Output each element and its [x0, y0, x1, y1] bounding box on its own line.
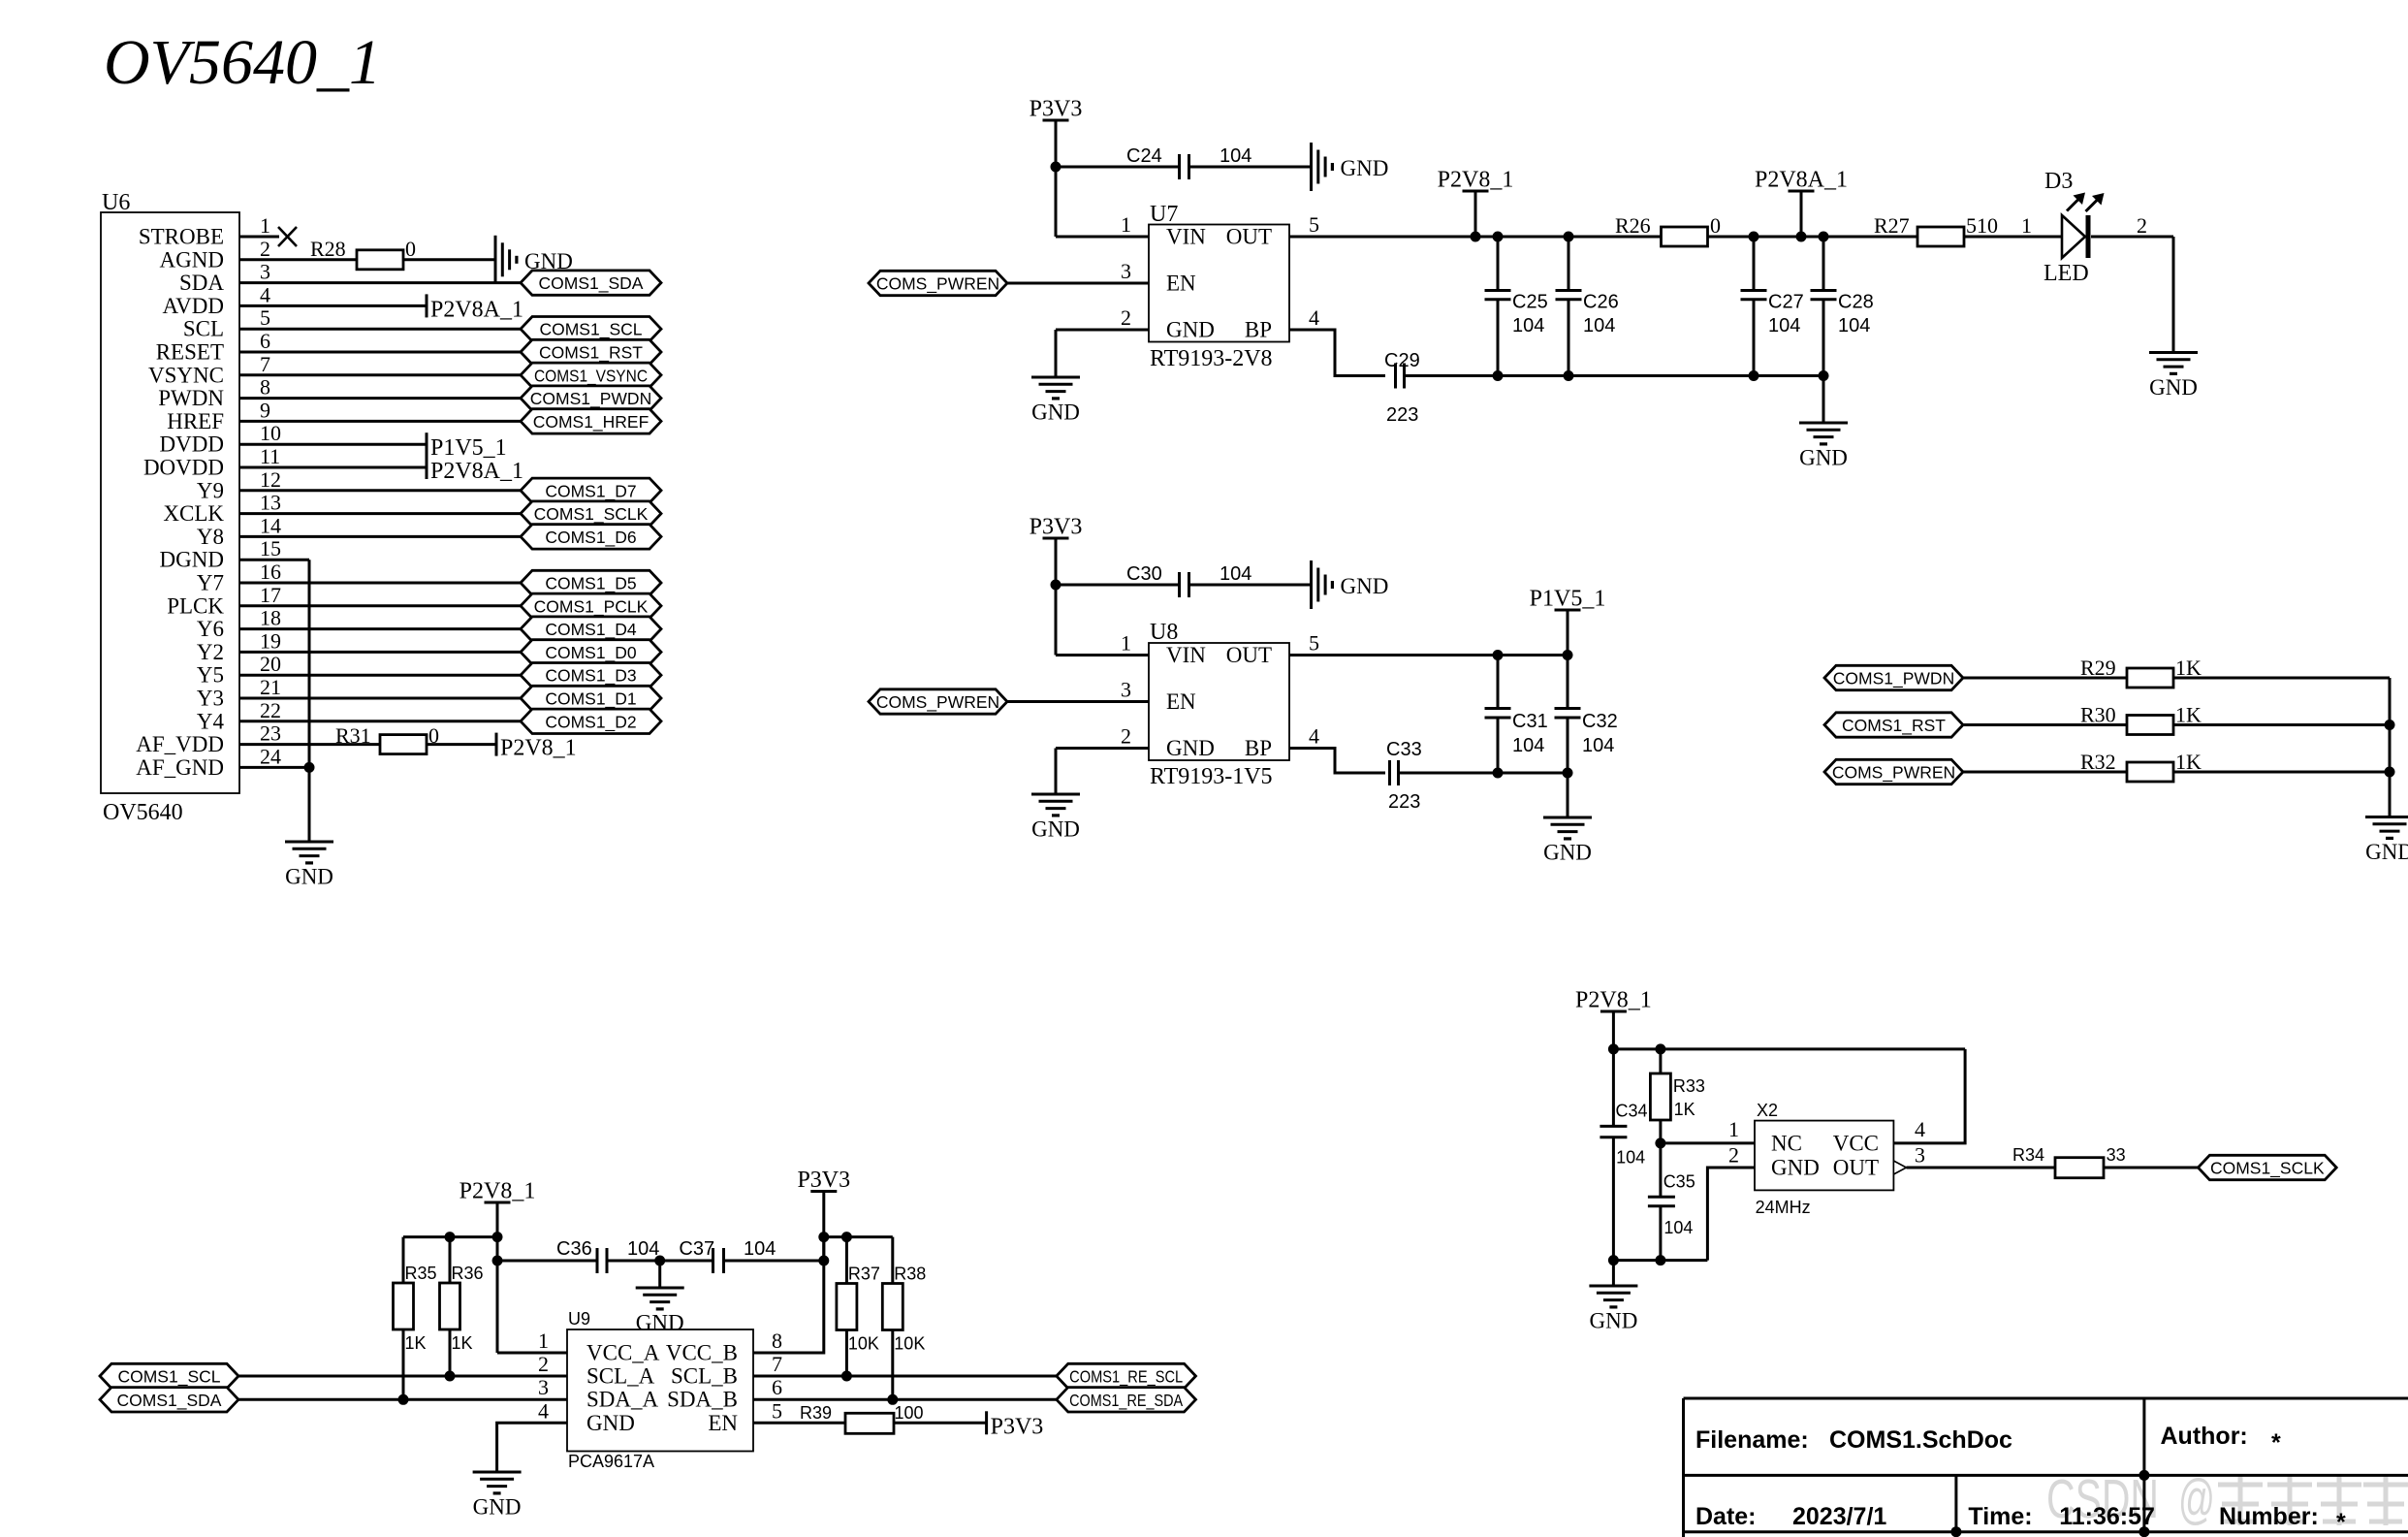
svg-text:2: 2 [538, 1352, 549, 1376]
svg-text:7: 7 [772, 1352, 782, 1376]
svg-text:C26: C26 [1583, 292, 1619, 313]
junction C25 on OUT rail [1493, 232, 1504, 242]
junction R36 top [445, 1232, 456, 1242]
svg-text:COMS1_D3: COMS1_D3 [545, 666, 636, 687]
resistor R31 0ohm [335, 723, 439, 754]
svg-text:GND: GND [1341, 574, 1389, 598]
svg-text:COMS1.SchDoc: COMS1.SchDoc [1829, 1426, 2012, 1454]
wire rail to C28 [1822, 237, 1825, 291]
junction P2V8_1 stem on OUT rail [1471, 232, 1481, 242]
wire R39 to P3V3 [894, 1422, 987, 1425]
svg-text:R39: R39 [800, 1403, 832, 1423]
port COMS1_D0 [521, 640, 661, 664]
port COMS1_SDA [521, 271, 661, 295]
svg-text:STROBE: STROBE [139, 225, 224, 249]
svg-text:4: 4 [1915, 1117, 1925, 1141]
LED pin numbers [2021, 213, 2147, 238]
svg-text:R31: R31 [335, 723, 371, 748]
junction R33 top [1655, 1043, 1665, 1054]
power P2V8_1 above U9 [459, 1179, 536, 1204]
power P2V8_1 above X2 [1575, 988, 1652, 1013]
svg-text:Y5: Y5 [197, 663, 224, 688]
power P2V8A_1 at U6 pin 4 [427, 294, 523, 322]
ground at R28 [495, 236, 573, 284]
VCC feed wire [1893, 1049, 1965, 1143]
junction C26 on OUT rail [1564, 232, 1574, 242]
svg-text:2: 2 [260, 237, 270, 261]
svg-text:5: 5 [260, 305, 270, 330]
U6 pin 11 DOVDD wire [239, 466, 427, 469]
svg-text:U8: U8 [1150, 620, 1178, 645]
svg-text:1: 1 [1728, 1117, 1739, 1141]
svg-text:R28: R28 [310, 237, 346, 261]
svg-text:2023/7/1: 2023/7/1 [1792, 1503, 1886, 1530]
svg-text:510: 510 [1966, 213, 1998, 238]
svg-text:C25: C25 [1512, 292, 1548, 313]
svg-text:GND: GND [1771, 1156, 1820, 1180]
svg-text:Y9: Y9 [197, 478, 224, 502]
U8 pin 1 wire [1056, 654, 1149, 656]
ground below pulldowns [2365, 817, 2408, 865]
title block junction 3 [2139, 1526, 2149, 1537]
capacitor C29 223 [1384, 350, 1420, 426]
ground at C24 [1312, 143, 1389, 191]
pulldown bus to ground [2389, 772, 2392, 817]
wire rail to C31 [1497, 656, 1500, 709]
P2V8_1 stem to U9 pin1 row [496, 1202, 499, 1353]
svg-text:14: 14 [260, 513, 281, 537]
svg-text:R36: R36 [452, 1264, 484, 1283]
power P3V3 above U7 [1030, 97, 1083, 122]
X2 pin numbers [1728, 1117, 1925, 1168]
svg-text:AVDD: AVDD [163, 294, 224, 318]
junction C31 on U8 rail [1493, 650, 1504, 660]
svg-text:SCL_A: SCL_A [586, 1364, 655, 1389]
svg-text:104: 104 [627, 1238, 659, 1260]
svg-text:GND: GND [473, 1495, 522, 1520]
svg-text:21: 21 [260, 675, 281, 699]
svg-text:1K: 1K [2175, 656, 2202, 680]
svg-text:5: 5 [772, 1398, 782, 1423]
svg-text:3: 3 [260, 260, 270, 284]
pulldown vertical bus [2389, 678, 2392, 772]
ground below X2 [1589, 1286, 1637, 1333]
U9 pin numbers [538, 1329, 782, 1423]
svg-text:33: 33 [2107, 1145, 2126, 1165]
U6 pin numbers 1-24 [260, 213, 281, 768]
U9 pin 5 EN wire [753, 1422, 845, 1425]
svg-text:COMS1_SCLK: COMS1_SCLK [2210, 1159, 2325, 1179]
svg-text:OV5640: OV5640 [103, 800, 183, 825]
X2 pin 2 GND wire [1707, 1168, 1755, 1261]
P2V8_1 stem [1474, 191, 1477, 237]
ground below U7 [1031, 377, 1080, 425]
svg-text:R34: R34 [2012, 1145, 2044, 1165]
U6 pin 18 wire [239, 627, 521, 630]
svg-text:XCLK: XCLK [163, 501, 224, 526]
U6 pin 17 wire [239, 604, 521, 607]
U8 bottom rail [1399, 772, 1568, 775]
no-connect X on U6 pin 1 [278, 227, 297, 246]
svg-text:104: 104 [1220, 145, 1252, 167]
power P1V5_1 [1530, 587, 1606, 612]
svg-text:GND: GND [1799, 446, 1848, 470]
resistor R30 1K [2080, 703, 2202, 735]
svg-text:COMS1_VSYNC: COMS1_VSYNC [534, 366, 648, 386]
svg-text:12: 12 [260, 467, 281, 492]
DGND vertical wire [308, 560, 311, 767]
junction R35 on SDA line [398, 1394, 409, 1405]
X2 pin 3 OUT wire [1907, 1167, 2056, 1169]
title block junction 1 [2139, 1470, 2149, 1481]
resistor R36 1K [440, 1264, 484, 1353]
svg-text:C31: C31 [1512, 711, 1548, 732]
svg-text:23: 23 [260, 721, 281, 746]
svg-text:11:36:57: 11:36:57 [2059, 1503, 2155, 1530]
svg-text:Number:: Number: [2219, 1503, 2319, 1530]
svg-text:AF_VDD: AF_VDD [136, 732, 224, 756]
wire rail to C25 [1497, 237, 1500, 291]
svg-text:24: 24 [260, 744, 281, 768]
svg-text:15: 15 [260, 536, 281, 560]
port COMS1_SCL [100, 1363, 238, 1388]
svg-text:C33: C33 [1386, 739, 1422, 760]
junction C28 on OUT rail [1819, 232, 1829, 242]
X2 bottom rail [1613, 1259, 1707, 1262]
junction bottom rail x1545 [1493, 370, 1504, 381]
U9 pin 4 GND wire [497, 1423, 567, 1472]
svg-text:GND: GND [1031, 400, 1080, 425]
U7 bottom rail [1405, 374, 1823, 377]
svg-text:3: 3 [1915, 1143, 1925, 1168]
junction R38 on SDA_B [887, 1394, 898, 1405]
svg-text:C36: C36 [556, 1238, 592, 1260]
svg-text:6: 6 [772, 1375, 782, 1399]
svg-text:Time:: Time: [1968, 1503, 2032, 1530]
svg-text:9: 9 [260, 398, 270, 422]
power P2V8A_1 [1755, 168, 1848, 193]
junction C31 bottom [1493, 768, 1504, 779]
svg-text:2: 2 [1728, 1143, 1739, 1168]
junction P3V3/C24 [1051, 162, 1061, 173]
svg-text:P3V3: P3V3 [797, 1168, 850, 1193]
svg-text:GND: GND [2149, 375, 2198, 400]
capacitor C27 104 [1741, 291, 1804, 337]
svg-text:U9: U9 [568, 1309, 590, 1329]
port COMS1_RE_SCL [1057, 1363, 1196, 1388]
svg-text:COMS1_HREF: COMS1_HREF [533, 412, 650, 432]
svg-text:SDA: SDA [179, 271, 224, 295]
port COMS1_SCLK [521, 501, 661, 526]
capacitor C34 104 [1600, 1102, 1647, 1168]
svg-text:10: 10 [260, 421, 281, 445]
svg-text:DGND: DGND [160, 548, 224, 572]
U6 pin names [136, 225, 224, 780]
svg-text:PLCK: PLCK [167, 593, 224, 618]
port COMS1_D3 [521, 663, 661, 688]
port COMS1_D5 [521, 570, 661, 594]
port COMS1_PWDN to R29 [1824, 665, 1963, 689]
port COMS_PWREN to R32 [1824, 759, 1963, 784]
title block frame [1684, 1398, 2408, 1537]
power P2V8A_1 at U6 pin 11 [427, 456, 523, 484]
svg-text:GND: GND [1543, 841, 1592, 865]
U7 pin 2 stem to ground [1055, 330, 1058, 377]
svg-text:COMS1_D2: COMS1_D2 [545, 712, 636, 732]
svg-text:4: 4 [1309, 305, 1319, 330]
resistor R37 10K [837, 1265, 880, 1354]
wire COMS1_RST to R30 [1963, 723, 2127, 726]
svg-text:P1V5_1: P1V5_1 [1530, 587, 1606, 612]
U8 bottom stem to ground [1567, 773, 1569, 817]
resistor R29 1K [2080, 656, 2202, 688]
svg-text:P2V8_1: P2V8_1 [1438, 168, 1514, 193]
svg-text:OUT: OUT [1226, 225, 1272, 249]
U6 pin 15 DGND wire [239, 559, 309, 561]
svg-text:1: 1 [2021, 213, 2032, 238]
U6 pin 24 AF_GND wire [239, 766, 309, 769]
port COMS1_RE_SDA [1057, 1388, 1196, 1412]
junction C37 on P3V3 stem [818, 1256, 829, 1266]
junction P2V8_1 rail [492, 1232, 503, 1242]
power P3V3 at R39 [987, 1411, 1044, 1439]
svg-text:2: 2 [2137, 213, 2147, 238]
P3V3 stem to U7 pin1 [1055, 120, 1058, 237]
svg-text:Y3: Y3 [197, 687, 224, 711]
U7 pin 4 BP wire [1289, 330, 1385, 376]
wire P3V3 to C30 [1056, 584, 1179, 587]
svg-text:AF_GND: AF_GND [136, 755, 224, 780]
R38 top feed [891, 1237, 894, 1284]
svg-text:1K: 1K [452, 1333, 473, 1353]
svg-text:P2V8_1: P2V8_1 [500, 736, 577, 761]
svg-text:R32: R32 [2080, 750, 2116, 774]
U7 OUT rail segment 1 [1289, 236, 1661, 239]
U7 OUT rail segment 2 [1708, 236, 1917, 239]
resistor R32 1K [2080, 750, 2202, 782]
svg-text:COMS_PWREN: COMS_PWREN [876, 274, 999, 295]
port COMS1_D4 [521, 617, 661, 641]
svg-text:COMS1_D5: COMS1_D5 [545, 574, 636, 594]
svg-text:OV5640_1: OV5640_1 [104, 27, 381, 98]
U8 pin 3 EN wire [1007, 700, 1149, 703]
wire P3V3 to C24 [1056, 166, 1179, 169]
port COMS1_D2 [521, 709, 661, 733]
U6 pin 10 DVDD wire [239, 443, 427, 446]
ground at C30 [1312, 560, 1389, 609]
U6 pin 14 wire [239, 535, 521, 538]
power P3V3 above U8 [1030, 515, 1083, 540]
svg-text:GND: GND [285, 865, 333, 889]
U6 pin 5 wire [239, 328, 521, 331]
port COMS1_D6 [521, 525, 661, 549]
svg-text:C32: C32 [1582, 711, 1618, 732]
svg-text:D3: D3 [2044, 169, 2073, 194]
P2V8A_1 stem [1800, 191, 1803, 237]
svg-text:4: 4 [538, 1398, 549, 1423]
svg-text:223: 223 [1386, 404, 1418, 426]
junction R37 on SCL_B [841, 1371, 852, 1382]
svg-text:DVDD: DVDD [160, 432, 224, 457]
wire rail to C26 [1568, 237, 1570, 291]
X2 top rail [1613, 1047, 1965, 1050]
wire R29 to bus [2173, 677, 2390, 680]
svg-text:COMS_PWREN: COMS_PWREN [1832, 763, 1955, 784]
port COMS1_SCLK [2198, 1155, 2336, 1179]
capacitor C30 104 [1126, 563, 1252, 597]
U6 pin 23 wire to R31 [239, 743, 380, 746]
svg-text:R30: R30 [2080, 703, 2116, 727]
U8 pin 4 BP wire [1289, 749, 1385, 774]
capacitor C33 223 [1386, 739, 1422, 813]
svg-text:COMS1_RST: COMS1_RST [1842, 716, 1946, 736]
U6 pin 13 wire [239, 512, 521, 515]
svg-text:3: 3 [1121, 678, 1131, 702]
svg-text:1K: 1K [2175, 750, 2202, 774]
U6 pin 7 wire [239, 373, 521, 376]
ground between C36 C37 [636, 1288, 684, 1335]
svg-text:100: 100 [895, 1403, 924, 1423]
svg-text:SCL: SCL [183, 317, 224, 341]
U6 pin 8 wire [239, 397, 521, 400]
svg-text:P2V8_1: P2V8_1 [459, 1179, 536, 1204]
wire rail to C32 [1567, 656, 1569, 709]
wire C25 to bottom rail [1497, 300, 1500, 376]
U6 pin 21 wire [239, 697, 521, 700]
junction bottom rail x1881 [1819, 370, 1829, 381]
junction P2V8A_1 stem on OUT rail [1796, 232, 1807, 242]
svg-text:COMS1_SDA: COMS1_SDA [117, 1391, 222, 1411]
svg-text:RESET: RESET [156, 340, 224, 365]
port COMS1_SCL [521, 317, 661, 341]
svg-text:Y8: Y8 [197, 525, 224, 549]
wire R32 to bus [2173, 771, 2390, 774]
P3V3 stem U9 [822, 1192, 825, 1262]
title block junction 2 [1950, 1526, 1961, 1537]
svg-text:GND: GND [1031, 817, 1080, 842]
IC X2 24MHz oscillator body [1755, 1101, 1893, 1217]
svg-text:COMS1_SCLK: COMS1_SCLK [534, 504, 649, 525]
U8 pin 2 stem to ground [1055, 749, 1058, 795]
svg-text:10K: 10K [848, 1334, 879, 1354]
port COMS1_RST [521, 339, 661, 364]
U9 pin 3 SDA_A wire [238, 1398, 567, 1401]
svg-text:104: 104 [1512, 735, 1544, 756]
ground below U8 [1031, 794, 1080, 842]
svg-text:COMS1_SCL: COMS1_SCL [539, 320, 642, 340]
ground below C32 [1543, 817, 1592, 865]
svg-text:0: 0 [1710, 213, 1721, 238]
svg-text:1: 1 [1121, 631, 1131, 656]
wire C37 to P3V3 stem [724, 1260, 824, 1263]
port COMS_PWREN to U8 [869, 689, 1007, 714]
svg-text:COMS1_D7: COMS1_D7 [545, 481, 636, 501]
ground below U6 [285, 842, 333, 889]
junction at AF_GND [304, 762, 315, 773]
junction bottom rail x1809 [1749, 370, 1759, 381]
svg-text:C28: C28 [1838, 292, 1874, 313]
svg-text:7: 7 [260, 352, 270, 376]
svg-text:RT9193-1V5: RT9193-1V5 [1150, 764, 1273, 789]
junction R30 bus [2385, 720, 2395, 730]
svg-text:P3V3: P3V3 [991, 1414, 1044, 1439]
svg-text:R27: R27 [1874, 213, 1910, 238]
wire R28 to ground [403, 258, 495, 261]
junction C32 bottom [1563, 768, 1573, 779]
svg-text:P2V8A_1: P2V8A_1 [430, 459, 523, 484]
svg-text:DOVDD: DOVDD [143, 456, 224, 480]
svg-text:3: 3 [538, 1375, 549, 1399]
P2V8_1 stem to C34 [1612, 1011, 1615, 1126]
svg-text:22: 22 [260, 698, 281, 722]
port COMS_PWREN to U7 [869, 271, 1007, 295]
wire R30 to bus [2173, 723, 2390, 726]
svg-text:*: * [2271, 1429, 2281, 1457]
svg-text:COMS1_D0: COMS1_D0 [545, 643, 637, 663]
svg-text:17: 17 [260, 583, 281, 607]
R37 bottom stub [845, 1330, 848, 1377]
LED cathode wire [2091, 236, 2173, 239]
svg-text:VSYNC: VSYNC [148, 363, 224, 387]
C34 to bottom rail [1612, 1137, 1615, 1261]
IC U9 PCA9617A body [567, 1309, 753, 1471]
junction P3V3/C30 [1051, 580, 1061, 591]
svg-text:@: @ [2178, 1468, 2215, 1530]
U9 pin 7 SCL_B wire [753, 1375, 1057, 1378]
power P2V8_1 at R31 [496, 733, 577, 761]
svg-text:VIN: VIN [1166, 225, 1206, 249]
svg-text:0: 0 [405, 237, 416, 261]
svg-text:C37: C37 [679, 1238, 714, 1260]
svg-text:GND: GND [1589, 1309, 1637, 1333]
junction bottom rail C35 [1655, 1255, 1665, 1265]
U8 OUT rail [1289, 654, 1568, 656]
svg-text:P3V3: P3V3 [1030, 515, 1083, 540]
R35 top stub [402, 1237, 405, 1283]
capacitor C26 104 [1556, 291, 1619, 337]
wire COMS_PWREN to R32 [1963, 771, 2127, 774]
svg-text:COMS1_RST: COMS1_RST [539, 343, 643, 364]
wire LED to ground [2172, 237, 2175, 353]
svg-text:P3V3: P3V3 [1030, 97, 1083, 122]
svg-text:RT9193-2V8: RT9193-2V8 [1150, 346, 1273, 371]
P1V5_1 stem [1567, 610, 1569, 656]
CSDN watermark [2046, 1468, 2408, 1530]
bottom rail stem to ground [1822, 376, 1825, 424]
svg-text:1K: 1K [405, 1333, 427, 1353]
U6 pin 2 wire to R28 [239, 258, 357, 261]
U6 pin 9 wire [239, 420, 521, 423]
svg-text:GND: GND [2365, 840, 2408, 864]
X2 pin 1 NC wire [1661, 1141, 1755, 1144]
svg-text:EN: EN [1166, 272, 1196, 296]
svg-text:BP: BP [1245, 736, 1272, 760]
svg-text:AGND: AGND [160, 247, 224, 272]
svg-text:P1V5_1: P1V5_1 [430, 435, 507, 461]
svg-text:16: 16 [260, 560, 281, 584]
svg-text:VCC: VCC [1833, 1131, 1879, 1155]
U7 pin 1 wire [1056, 236, 1149, 239]
svg-text:U6: U6 [102, 190, 130, 215]
svg-text:LED: LED [2044, 261, 2089, 286]
title block date row [1695, 1503, 2346, 1536]
svg-text:C27: C27 [1768, 292, 1804, 313]
U8 pin numbers [1121, 631, 1319, 749]
svg-text:1: 1 [260, 213, 270, 238]
svg-text:5: 5 [1309, 212, 1319, 237]
U9 pin 8 VCC_B wire [753, 1237, 824, 1353]
svg-text:5: 5 [1309, 631, 1319, 656]
